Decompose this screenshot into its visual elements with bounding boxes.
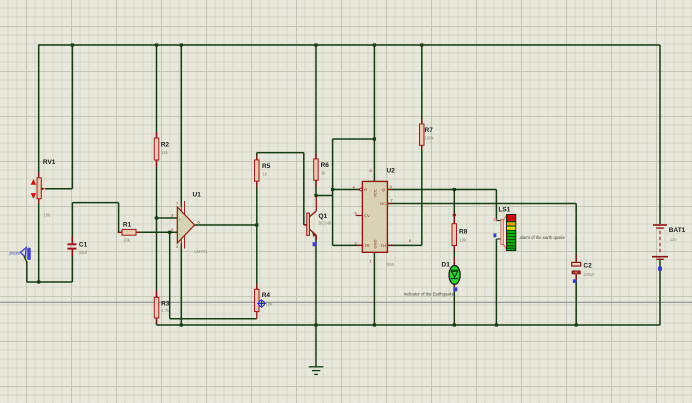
wire LS1 bottom vertical [495,239,497,325]
node bus-555gnd [373,323,376,326]
svg-text:LM741: LM741 [195,249,208,254]
speaker LS1 [493,207,565,251]
svg-text:Q: Q [382,187,385,192]
svg-text:R5: R5 [262,163,271,170]
svg-text:C2: C2 [583,263,592,270]
svg-text:TH: TH [381,243,386,248]
resistor R1 [122,221,136,242]
svg-text:U2: U2 [387,168,396,175]
transistor Q1 [304,196,332,247]
wire R8 to D1 [453,246,455,266]
svg-text:100k: 100k [425,136,435,141]
svg-text:10k: 10k [123,238,131,243]
svg-text:alarm of the earth quake: alarm of the earth quake [520,235,566,240]
capacitor C2 [572,255,596,283]
wire bottom-left horizontal [27,281,73,283]
node bus-R6 [314,43,317,46]
wire RV1 top to bus [38,45,40,178]
svg-text:4.7k: 4.7k [161,308,170,313]
axis line [0,302,692,303]
resistor R7 [420,124,435,145]
potentiometer RV1 [31,159,56,218]
LED D1 [404,258,460,297]
svg-text:12k: 12k [161,150,169,155]
wire bottom bus [157,324,661,326]
resistor R5 [255,160,271,181]
ground [309,367,324,375]
resistor R8 [452,214,468,246]
node collector R6 [314,194,317,197]
svg-text:R4: R4 [262,292,271,299]
wire R1 to U1 pin2 [136,231,177,233]
node bus-wiper [71,43,74,46]
capacitor C1 [67,236,87,256]
wire U1 output [195,224,257,226]
wire feedback horizontal [170,318,257,320]
piezo sensor [9,248,31,263]
wire R2 top to bus [156,45,158,138]
svg-text:VCC: VCC [372,189,377,198]
wire R6 top to bus [315,45,317,159]
svg-text:10k: 10k [460,238,468,243]
svg-text:100uF: 100uF [583,272,595,277]
wire C1 top vertical [71,203,73,244]
wire RV1 wiper horizontal [45,188,72,190]
wire collector node horizontal [316,195,333,197]
wire R3 bottom [156,318,158,325]
svg-text:CV: CV [364,213,370,218]
resistor R6 [314,159,330,180]
svg-text:BAT1: BAT1 [669,227,686,234]
node bus-LS1 [495,323,498,326]
wire R5 top lead [256,153,258,160]
wire top elbow to 555 VCC [333,138,375,140]
wire LS1 top vertical [495,190,497,221]
wire C1 bottom vertical [71,249,73,282]
node bus-U1V+ [180,43,183,46]
component red leads [118,119,455,324]
wire C2 top vertical [575,204,577,263]
svg-text:12v: 12v [670,237,678,242]
node bus-D1 [453,323,456,326]
wire R2 bottom to R3 top [156,160,158,297]
svg-text:10k: 10k [44,213,52,218]
wire 555 DC to C2 [387,203,576,205]
svg-text:R8: R8 [459,229,468,236]
wire 555 pin8 to bus [373,45,375,181]
svg-text:LS1: LS1 [498,207,510,214]
node RV1 bottom [37,280,40,283]
wire C2 bottom vertical [575,274,577,325]
wire Q1 base lead [304,224,307,226]
wire R1 left lead [119,231,122,233]
wire RV1 bottom [38,199,40,282]
wire R4 top lead [256,225,258,289]
resistor R2 [154,138,169,160]
wire 555 pin1 to bottom bus [373,252,375,325]
wire BAT1 bottom [659,259,661,326]
svg-text:+88: +88 [573,271,578,275]
node bus-C2 [575,323,578,326]
svg-text:indicator of the Earthquake: indicator of the Earthquake [404,292,455,297]
svg-text:R: R [364,187,367,192]
svg-text:555: 555 [387,262,395,267]
wire 555 pin2 TR [333,244,363,246]
wire 555 pin4 [333,189,360,191]
wire U1 V+ to bus [180,45,182,207]
op-amp U1 [171,192,208,255]
node output R5R4 [255,223,258,226]
wire R5 bottom lead [256,181,258,225]
svg-text:RV1: RV1 [43,159,56,166]
wire elbow to R1 vertical [118,203,120,233]
svg-text:C1: C1 [79,241,88,248]
node bus-R7 [420,43,423,46]
svg-text:R6: R6 [321,162,330,169]
svg-text:piezo: piezo [9,251,21,256]
svg-text:R1: R1 [123,221,132,228]
resistor R4 [255,289,274,318]
wire BAT1 top to bus [659,45,661,224]
svg-text:GND: GND [372,240,377,249]
wire piezo drop [26,261,28,282]
wire x332 vertical [332,139,334,245]
wire D1 bottom [453,284,455,325]
node 555 pin4 tee [331,188,334,191]
svg-text:R7: R7 [425,127,434,134]
svg-text:R3: R3 [161,301,170,308]
svg-text:U1: U1 [193,192,202,199]
wire 555 Q output [387,189,496,191]
wire R7 top to bus [421,45,423,124]
wire 555 TH [387,244,421,246]
wire R5 elbow horizontal [257,152,304,154]
node bus-R2 [155,43,158,46]
node Q-R8 [453,188,456,191]
wire top bus [38,44,660,46]
resistor R3 [154,297,170,318]
wire RV1 wiper vertical [71,45,73,189]
node vcc elbow tee [373,137,376,140]
svg-text:TR: TR [364,243,369,248]
wire feedback vertical [169,232,171,318]
svg-text:BC548: BC548 [319,221,332,226]
svg-text:D1: D1 [442,262,451,269]
battery BAT1 [652,225,686,271]
wire Q1 base vertical [303,153,305,225]
wire C1 elbow horizontal [72,202,118,204]
svg-text:DC: DC [380,201,386,206]
node pin3 divider [155,216,158,219]
wire R6 bottom [315,180,317,195]
node pin2 feedback [168,231,171,234]
wire R8 top vertical [453,190,455,224]
wire ground vertical [315,236,317,367]
wire U1 pin3 [155,217,178,219]
node bus-U1V- [180,323,183,326]
node bus-555vcc [373,43,376,46]
svg-text:R2: R2 [161,142,170,149]
wire U1 V- to bottom bus [180,244,182,326]
svg-text:10k: 10k [266,302,274,307]
svg-text:Q1: Q1 [319,213,328,220]
wire R7 bottom vertical [421,145,423,245]
node bus-gnd [314,323,317,326]
svg-text:22uf: 22uf [79,250,88,255]
timer U2 555 [353,168,413,268]
